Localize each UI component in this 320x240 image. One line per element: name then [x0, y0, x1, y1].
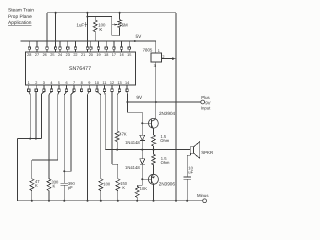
- svg-text:2: 2: [35, 81, 37, 85]
- wire pin4 down: [49, 91, 51, 178]
- svg-text:25: 25: [50, 53, 54, 57]
- svg-text:1uF: 1uF: [77, 22, 85, 27]
- junction Q2 base node: [141, 178, 143, 180]
- wire pin5 to 47K bracket: [32, 91, 59, 178]
- svg-text:K: K: [122, 185, 125, 190]
- wire 7805 pin3 down to 9V line: [155, 62, 157, 102]
- wire 9V corner to diode chain: [127, 102, 142, 112]
- speaker SPKR: [190, 142, 213, 159]
- U1 top pin numbers 28-15: [27, 53, 131, 57]
- svg-text:pF: pF: [68, 185, 73, 190]
- wire pin14 to 9V drop: [126, 91, 128, 102]
- svg-text:K: K: [53, 184, 56, 189]
- svg-text:Application: Application: [8, 20, 32, 26]
- resistor R3 1.5 Ohm: [152, 134, 170, 150]
- svg-text:27: 27: [35, 53, 39, 57]
- junction dots on ground rail: [31, 200, 188, 202]
- wire ground rail bottom: [18, 200, 203, 202]
- wire pins 1-3 ground bus: [18, 91, 44, 200]
- svg-text:14: 14: [125, 81, 129, 85]
- wire pin9 to ground: [88, 91, 90, 200]
- svg-text:18: 18: [104, 53, 108, 57]
- svg-text:7805: 7805: [143, 48, 153, 53]
- diode D1 1N4148: [140, 135, 145, 149]
- svg-text:22: 22: [73, 53, 77, 57]
- resistor R4 1.5 Ohm: [152, 150, 170, 165]
- svg-text:Ohm: Ohm: [160, 138, 169, 143]
- resistor R12 47K upper: [115, 131, 127, 150]
- resistor R9 47K: [30, 179, 40, 201]
- svg-text:6: 6: [65, 81, 67, 85]
- resistor R10 100: [99, 179, 111, 201]
- svg-text:100: 100: [103, 182, 111, 187]
- svg-text:9: 9: [88, 81, 90, 85]
- svg-text:8: 8: [81, 81, 83, 85]
- U2 pin 2 label: [162, 55, 164, 59]
- node 9V label: [136, 95, 143, 100]
- svg-text:SN76477: SN76477: [69, 66, 91, 72]
- svg-text:5V: 5V: [136, 34, 143, 39]
- wire 5V rail: [21, 40, 156, 42]
- potentiometer R2 5M: [112, 13, 128, 36]
- wire pin26 long wire: [46, 13, 48, 47]
- diode D2 1N4148: [140, 150, 145, 180]
- wire 5V rail to 7805 pin1: [155, 41, 157, 53]
- wire pin11 to speaker line: [103, 91, 106, 149]
- svg-text:1N4148: 1N4148: [125, 140, 140, 145]
- wire Q1 emitter lead: [153, 129, 155, 135]
- wire pot loop: [112, 25, 120, 36]
- svg-text:15: 15: [127, 53, 131, 57]
- svg-text:1N4148: 1N4148: [125, 165, 140, 170]
- wire pin12 down: [112, 91, 118, 178]
- svg-text:Minus: Minus: [197, 193, 208, 198]
- svg-text:10: 10: [95, 81, 99, 85]
- wire 9V to Q1 collector: [155, 102, 157, 119]
- voltage regulator U2 7805: [143, 48, 162, 63]
- wire pin21 long wire through C1: [86, 13, 88, 47]
- transistor Q1 2N3904: [142, 118, 158, 128]
- svg-text:24: 24: [58, 53, 62, 57]
- wire right ground drop: [175, 13, 177, 201]
- svg-text:3: 3: [43, 81, 45, 85]
- wire top ground rail: [47, 12, 176, 14]
- svg-text:23: 23: [66, 53, 70, 57]
- svg-text:3: 3: [154, 64, 156, 68]
- D2 label: [125, 165, 140, 170]
- wire pin6 down: [64, 91, 66, 183]
- svg-text:Prop Plane: Prop Plane: [8, 14, 32, 20]
- svg-text:Input: Input: [201, 105, 211, 110]
- svg-text:2N3906: 2N3906: [159, 182, 176, 187]
- terminal plus 9V input: [201, 95, 211, 110]
- svg-text:13: 13: [117, 81, 121, 85]
- wire pin13 down: [117, 91, 119, 131]
- svg-text:SPKR: SPKR: [201, 150, 213, 155]
- svg-text:5M: 5M: [122, 23, 128, 28]
- capacitor C3 10uF: [183, 153, 193, 201]
- resistor R7 10K: [135, 185, 147, 201]
- svg-text:11: 11: [102, 81, 106, 85]
- svg-text:5: 5: [58, 81, 60, 85]
- svg-text:12: 12: [110, 81, 114, 85]
- svg-text:28: 28: [27, 53, 31, 57]
- svg-text:uF: uF: [188, 170, 193, 175]
- wire 7805 pin2 to ground line: [161, 57, 175, 60]
- svg-text:9V: 9V: [136, 95, 143, 100]
- Q2 label: [159, 182, 176, 187]
- U2 pin 1 label: [158, 49, 160, 53]
- capacitor C2 390pF: [61, 181, 76, 201]
- wire pin25 long wire: [55, 12, 57, 47]
- svg-text:2N3904: 2N3904: [159, 111, 176, 116]
- U2 pin 3 label: [154, 64, 156, 68]
- junction Q1 base node: [141, 122, 143, 124]
- svg-text:1: 1: [28, 81, 30, 85]
- wire 9V input line: [127, 101, 200, 103]
- svg-text:K: K: [35, 183, 38, 188]
- junction top rail at capacitor: [86, 12, 88, 14]
- Q1 label: [159, 111, 176, 116]
- junction 9V at 7805 ground leg: [155, 101, 157, 103]
- junction speaker node at chain: [141, 149, 143, 151]
- svg-text:K: K: [99, 27, 102, 32]
- svg-text:7: 7: [73, 81, 75, 85]
- svg-text:21: 21: [81, 53, 85, 57]
- U1 bottom pin numbers 1-14: [28, 81, 130, 85]
- junction top rail at pot: [119, 12, 121, 14]
- svg-text:47K: 47K: [119, 131, 127, 136]
- junction pin14 join: [126, 101, 128, 103]
- wire pin10 down: [97, 91, 101, 178]
- svg-text:1: 1: [158, 49, 160, 53]
- D1 label: [125, 140, 140, 145]
- wire 100K top link: [86, 16, 111, 25]
- title text Steam Train Prop Plane Application: [8, 8, 34, 27]
- svg-text:17: 17: [112, 53, 116, 57]
- resistor R11 150K: [116, 179, 128, 201]
- terminal minus: [197, 193, 208, 203]
- op-amp U1 SN76477 IC body: [25, 52, 135, 85]
- svg-text:20: 20: [89, 53, 93, 57]
- svg-text:19: 19: [96, 53, 100, 57]
- U1 top pin stubs and terminals: [28, 41, 130, 52]
- node 5V label: [134, 34, 142, 42]
- resistor R8 330K: [47, 179, 59, 201]
- transistor Q2 2N3906: [142, 165, 158, 201]
- svg-text:26: 26: [43, 53, 47, 57]
- svg-text:2: 2: [162, 55, 164, 59]
- svg-text:Steam Train: Steam Train: [8, 8, 34, 14]
- U1 bottom pin stubs and terminals: [28, 85, 129, 92]
- junction speaker line at 47K: [116, 149, 118, 151]
- capacitor C1 1uF: [77, 22, 88, 28]
- svg-text:16: 16: [119, 53, 123, 57]
- svg-text:4: 4: [50, 81, 52, 85]
- wire chain to 10K: [137, 179, 142, 185]
- resistor R1 100K: [93, 20, 106, 41]
- wire diode chain top: [141, 112, 143, 135]
- svg-text:Ohm: Ohm: [161, 160, 170, 165]
- svg-text:Plus: Plus: [201, 95, 209, 100]
- wire speaker feed line: [105, 149, 190, 151]
- wire pin7 join: [63, 91, 74, 172]
- junction speaker node mid: [153, 149, 155, 151]
- svg-text:10K: 10K: [140, 186, 148, 191]
